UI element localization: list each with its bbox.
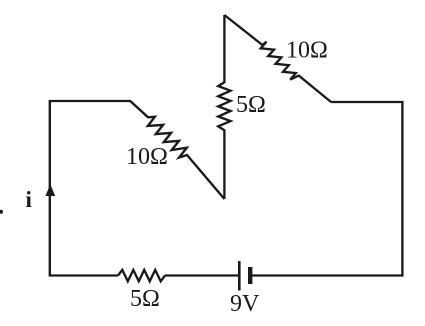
svg-text:5Ω: 5Ω [130,286,160,312]
svg-text:9V: 9V [230,291,260,317]
svg-text:i: i [26,187,33,212]
svg-text:5Ω: 5Ω [236,92,266,118]
svg-text:10Ω: 10Ω [126,144,168,170]
svg-text:10Ω: 10Ω [286,38,328,64]
